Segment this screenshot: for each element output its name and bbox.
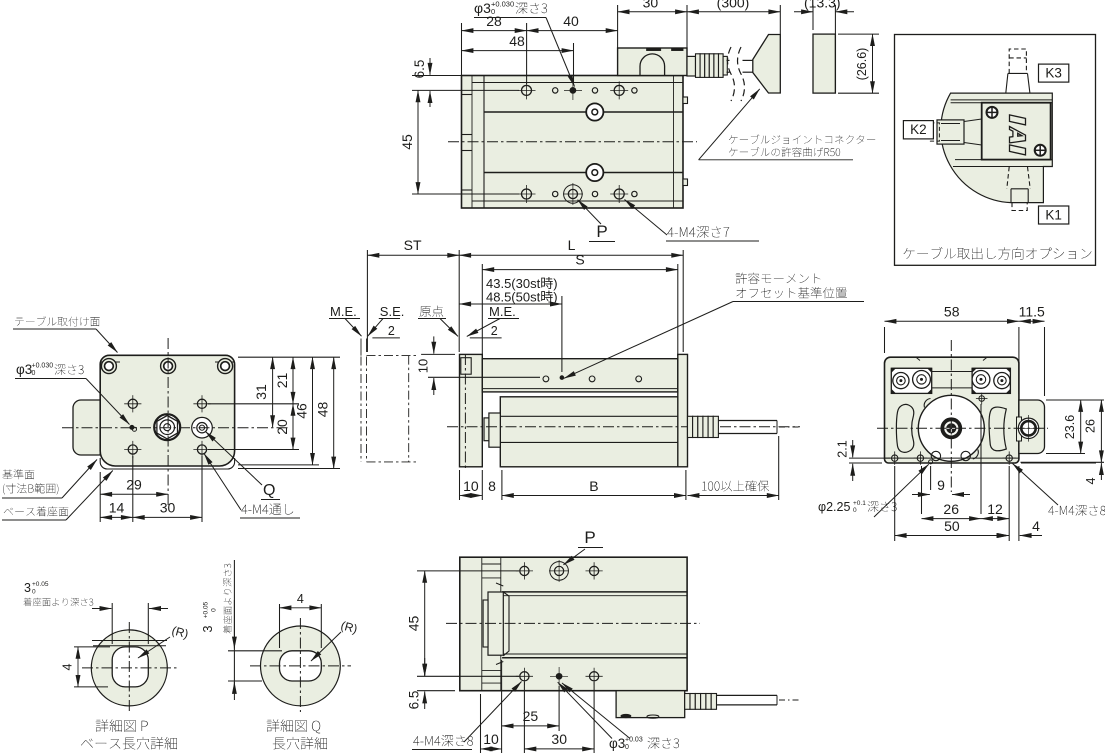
cable lines to flag: [727, 59, 730, 61]
bottom cable: [717, 694, 778, 696]
svg-text:4: 4: [297, 592, 304, 606]
svg-text:+0.030: +0.030: [32, 363, 54, 370]
K2 label box: [903, 121, 933, 139]
svg-text:Q: Q: [263, 482, 275, 499]
detail P caption: [96, 719, 148, 732]
top view body: [462, 76, 684, 209]
cable break symbol: [728, 47, 735, 101]
svg-text:ST: ST: [404, 237, 422, 253]
option box caption: [904, 247, 1092, 260]
svg-text:10: 10: [483, 731, 499, 747]
svg-text:0: 0: [32, 370, 36, 377]
dim 48: [462, 50, 574, 52]
dim 10 30: [480, 694, 482, 753]
left rail block: [891, 368, 931, 393]
bore center rings: [941, 418, 962, 439]
svg-text:P: P: [596, 222, 607, 241]
K2 connector: [937, 120, 964, 144]
svg-text:+0.05: +0.05: [203, 601, 210, 618]
svg-text:B: B: [589, 478, 598, 494]
svg-text:10: 10: [416, 359, 431, 373]
bottom view nut profile: [488, 592, 503, 655]
plate screws: [987, 107, 998, 118]
side view table plate: [482, 359, 678, 392]
svg-text:26: 26: [1084, 419, 1098, 433]
detail P crosshairs: [82, 667, 177, 669]
label 4-M4 depth7: [667, 226, 729, 238]
left view cross holes: [128, 399, 137, 408]
svg-text:M.E.: M.E.: [330, 304, 357, 319]
svg-text:+0.1: +0.1: [853, 500, 866, 507]
K1 label box: [1039, 206, 1069, 224]
svg-text:0: 0: [491, 7, 495, 16]
svg-text:φ3: φ3: [474, 0, 491, 16]
K3 label box: [1039, 64, 1069, 82]
left view right dims 21 31 46 48: [238, 356, 340, 358]
left view Q hole: [192, 417, 213, 438]
motor housing top view: [618, 48, 687, 76]
svg-text:48.5(50st時): 48.5(50st時): [486, 290, 558, 305]
svg-text:2: 2: [491, 324, 498, 338]
side view cable: [718, 420, 777, 422]
detail Q circle: [261, 626, 341, 706]
dim 28: [461, 23, 463, 76]
side view right end block: [678, 354, 688, 466]
svg-text:12: 12: [987, 501, 1003, 517]
strip 13.3 view: [813, 34, 835, 93]
cylinder nose bearing: [489, 413, 500, 447]
left view base lip: [100, 458, 234, 469]
section top notches: [916, 357, 920, 360]
svg-text:58: 58: [944, 304, 960, 320]
svg-text:21: 21: [274, 373, 290, 389]
side view cylinder body: [500, 397, 686, 467]
bottom view inner tabs: [482, 563, 501, 565]
detail P dim 4: [74, 646, 110, 648]
svg-text:K2: K2: [910, 122, 927, 137]
svg-text:30: 30: [643, 0, 659, 11]
detail P dim 3 top: [111, 603, 113, 644]
side pockets: [896, 404, 913, 452]
right rail block: [972, 368, 1010, 393]
K1 connector dashed: [1007, 167, 1030, 189]
svg-text:29: 29: [126, 477, 142, 493]
section body: [885, 357, 1019, 463]
main bore circle: [918, 395, 984, 461]
svg-text:(26.6): (26.6): [855, 48, 869, 81]
top view hole row 2: [522, 189, 532, 199]
dims 9 26 12 50 4 bottom: [930, 466, 932, 490]
bottom holes: [892, 455, 898, 461]
bottom view slider band: [502, 591, 687, 593]
option box frame: [895, 35, 1096, 266]
detail P depth lines: [92, 640, 167, 642]
detail Q slot: [280, 651, 322, 681]
label 4-M4 through: [241, 504, 293, 515]
svg-text:S.E.: S.E.: [380, 304, 405, 319]
top view left tabs: [462, 94, 473, 96]
dim (13.3): [812, 5, 814, 30]
svg-text:8: 8: [488, 478, 496, 494]
bottom view centerline: [446, 622, 700, 624]
svg-text:+0.03: +0.03: [625, 737, 643, 744]
svg-text:31: 31: [253, 384, 269, 400]
dim 10 side view: [421, 353, 455, 355]
rail band: [891, 367, 931, 369]
left view top notches: [100, 361, 120, 363]
dim 2.1: [849, 457, 890, 459]
P hole bottom view: [550, 562, 569, 581]
cable corrugation: [696, 54, 701, 78]
svg-text:46: 46: [294, 403, 310, 419]
svg-text:6.5: 6.5: [407, 691, 422, 710]
svg-text:P: P: [584, 528, 595, 547]
top view center ring top: [586, 103, 603, 120]
top view centerline: [448, 141, 697, 143]
dim 10 8 B bottom: [459, 470, 461, 500]
svg-text:M.E.: M.E.: [489, 304, 516, 319]
svg-text:0: 0: [625, 744, 629, 751]
dim 6.5 top view: [412, 75, 462, 77]
phi3 hole bottom view: [556, 673, 562, 679]
svg-text:3: 3: [201, 625, 215, 632]
svg-text:0: 0: [853, 507, 857, 514]
svg-text:48: 48: [509, 33, 525, 49]
bottom cable gland: [685, 694, 690, 710]
svg-text:6.5: 6.5: [412, 60, 427, 79]
IAI logo: [1010, 115, 1026, 155]
attachment gland circle: [1018, 418, 1038, 438]
detail Q caption: [267, 719, 321, 733]
bottom view hole rows: [520, 566, 529, 575]
side view ghost stroke-end table: [360, 339, 362, 356]
rail bar between: [932, 371, 972, 373]
cable connector stack: [687, 56, 696, 76]
svg-text:40: 40: [563, 13, 579, 29]
moment offset point: [560, 376, 564, 380]
bottom circles pair: [931, 451, 940, 460]
svg-text:K3: K3: [1045, 66, 1062, 81]
svg-text:23.6: 23.6: [1063, 415, 1077, 439]
K3 connector dashed: [1006, 73, 1030, 93]
cable end flag: [753, 35, 781, 94]
dim 100+: [778, 436, 780, 500]
svg-text:48: 48: [315, 402, 331, 418]
phi3 pin hole top: [570, 88, 576, 94]
dim 45 6.5 bottom view: [417, 570, 519, 572]
top view right tabs: [683, 97, 688, 104]
left view body: [100, 355, 234, 466]
svg-text:φ3: φ3: [16, 362, 32, 377]
svg-text:45: 45: [399, 134, 415, 150]
section dims 58 11.5: [884, 327, 886, 353]
P hole top view: [564, 185, 583, 204]
dim 25: [501, 660, 503, 753]
label 4-M4 depth8 bottom: [413, 735, 473, 747]
side view center line: [447, 426, 800, 428]
svg-text:K1: K1: [1045, 208, 1062, 223]
left view top screws: [101, 359, 116, 374]
left view center hex boss: [154, 414, 180, 440]
svg-text:2: 2: [388, 324, 395, 338]
dim (26.6): [838, 33, 879, 35]
svg-text:30: 30: [160, 500, 176, 516]
detail Q dim 4 top: [279, 604, 281, 648]
svg-text:50: 50: [944, 518, 960, 534]
rail corner wedges: [891, 368, 896, 373]
svg-text:2.1: 2.1: [836, 440, 850, 457]
svg-text:(13.3): (13.3): [804, 0, 841, 11]
svg-text:4: 4: [1032, 518, 1040, 534]
svg-text:4: 4: [61, 663, 75, 670]
label base seating face: [4, 506, 69, 516]
label table mount face: [15, 316, 100, 326]
label cable joint connector: [729, 135, 875, 144]
left view phi3 dot: [130, 425, 134, 429]
rollers left: [893, 373, 909, 389]
left view bottom dims 29 14 30: [99, 472, 101, 522]
svg-text:(300): (300): [717, 0, 750, 11]
dim L: [682, 250, 684, 352]
option housing outline: [941, 93, 1053, 203]
svg-text:S: S: [575, 252, 584, 268]
side view left bracket: [460, 354, 483, 466]
svg-text:+0.05: +0.05: [32, 581, 49, 588]
svg-text:0: 0: [32, 589, 36, 596]
svg-text:3: 3: [24, 581, 31, 595]
dim 45 top view: [412, 193, 519, 195]
dim 40: [527, 30, 618, 32]
top view rail lines: [484, 111, 683, 113]
svg-text:11.5: 11.5: [1019, 304, 1045, 320]
svg-text:25: 25: [523, 708, 539, 724]
dim ST: [366, 250, 368, 352]
svg-text:4: 4: [1084, 477, 1098, 484]
dim (300): [779, 5, 781, 34]
label 4-M4 depth8 right: [1048, 505, 1105, 516]
svg-text:9: 9: [937, 477, 945, 493]
label base ref face: [3, 469, 35, 479]
bottom connector box: [616, 691, 685, 718]
left view centerlines: [62, 427, 288, 429]
svg-text:10: 10: [463, 478, 479, 494]
svg-text:0: 0: [211, 608, 218, 612]
detail Q crosshairs: [250, 665, 351, 667]
dim 23.6 26 right: [1046, 399, 1104, 401]
top view hole row 1: [522, 85, 532, 95]
dim S: [481, 264, 483, 356]
svg-text:φ2.25: φ2.25: [818, 500, 850, 514]
label allowable moment: [736, 273, 821, 284]
section right attachment: [1019, 400, 1045, 454]
svg-text:26: 26: [943, 501, 959, 517]
side view cable gland: [688, 416, 693, 437]
svg-text:14: 14: [109, 500, 125, 516]
bottom view body: [460, 557, 687, 691]
svg-text:20: 20: [274, 419, 290, 435]
table side holes: [543, 376, 549, 382]
dim 4 right: [1021, 462, 1096, 464]
detail P circle: [91, 630, 167, 706]
svg-text:45: 45: [406, 616, 422, 632]
svg-text:30: 30: [551, 731, 567, 747]
dim 30: [617, 5, 619, 48]
detail Q depth dim: [228, 650, 282, 652]
IAI plate: [982, 103, 1051, 160]
detail P slot: [112, 647, 148, 687]
small hole top right of bore: [979, 396, 985, 402]
bracket sensor dog: [461, 358, 471, 375]
section centerlines: [950, 340, 952, 492]
top view center ring bottom: [586, 164, 603, 181]
rollers right: [972, 371, 990, 389]
left view cap protrusion: [73, 400, 100, 455]
